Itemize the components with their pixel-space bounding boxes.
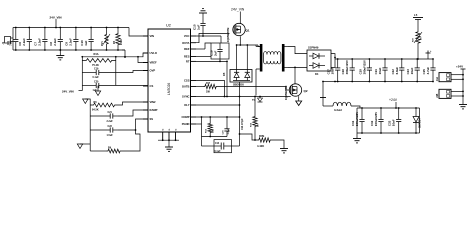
svg-text:2K: 2K — [421, 37, 423, 40]
svg-text:10K: 10K — [213, 129, 215, 133]
svg-text:OUTA: OUTA — [182, 41, 189, 45]
svg-text:4.42K: 4.42K — [257, 144, 264, 148]
svg-text:OVP: OVP — [150, 69, 156, 73]
svg-text:RAMP: RAMP — [150, 108, 158, 112]
svg-text:RT: RT — [186, 60, 190, 64]
svg-text:VIN2: VIN2 — [150, 100, 156, 104]
svg-text:2uF: 2uF — [213, 50, 217, 56]
svg-text:C22: C22 — [108, 125, 113, 128]
svg-text:VCC: VCC — [184, 34, 190, 38]
svg-text:24V_VIN: 24V_VIN — [50, 16, 62, 20]
svg-text:100uF/28V: 100uF/28V — [374, 112, 378, 126]
svg-text:10uF: 10uF — [378, 67, 382, 74]
svg-text:+24V: +24V — [456, 65, 463, 69]
svg-text:1.5uF: 1.5uF — [107, 134, 114, 137]
svg-text:VIN: VIN — [150, 34, 155, 38]
svg-text:1uF: 1uF — [84, 40, 88, 45]
svg-text:C14: C14 — [215, 142, 220, 145]
svg-text:C20: C20 — [94, 80, 99, 83]
svg-text:2.2nF: 2.2nF — [228, 128, 230, 134]
svg-text:2.2uF: 2.2uF — [22, 38, 26, 46]
svg-text:20K: 20K — [206, 92, 211, 94]
svg-text:FQD5N20TM: FQD5N20TM — [285, 86, 288, 100]
svg-text:LM5026: LM5026 — [167, 83, 171, 95]
svg-text:2.2uF: 2.2uF — [69, 38, 73, 46]
svg-text:D5: D5 — [222, 72, 226, 76]
svg-text:300uF/25V: 300uF/25V — [345, 60, 349, 74]
svg-text:249K: 249K — [120, 39, 123, 45]
svg-text:SMAJ24: SMAJ24 — [419, 118, 422, 128]
svg-text:+24V: +24V — [389, 98, 398, 102]
svg-text:Q2: Q2 — [304, 89, 308, 93]
svg-text:COMP: COMP — [181, 115, 189, 119]
svg-text:C19: C19 — [94, 67, 99, 70]
svg-text:DLY: DLY — [184, 103, 189, 107]
svg-text:D4: D4 — [315, 72, 319, 76]
svg-text:U2: U2 — [166, 24, 171, 28]
svg-text:24V_VIN: 24V_VIN — [62, 90, 74, 94]
svg-text:R7B: R7B — [259, 134, 264, 138]
svg-text:10uF: 10uF — [331, 67, 335, 74]
svg-text:SYNC: SYNC — [182, 95, 190, 99]
svg-text:VREF: VREF — [150, 61, 158, 65]
svg-text:CS: CS — [150, 84, 154, 88]
svg-text:R4A: R4A — [94, 53, 99, 56]
svg-text:J4A: J4A — [436, 77, 439, 82]
svg-text:R17: R17 — [206, 83, 211, 85]
svg-text:10uF: 10uF — [392, 119, 396, 126]
svg-text:4.7uF: 4.7uF — [426, 67, 430, 75]
svg-text:84.5K: 84.5K — [92, 109, 99, 112]
svg-text:S1PM49: S1PM49 — [308, 46, 319, 50]
svg-text:1uF: 1uF — [93, 89, 98, 92]
svg-text:3.3uH: 3.3uH — [334, 108, 342, 112]
svg-text:PGND: PGND — [182, 122, 190, 126]
svg-text:G: G — [176, 129, 178, 131]
svg-text:OUTB: OUTB — [182, 85, 190, 89]
svg-text:24V_VIN: 24V_VIN — [231, 8, 245, 12]
svg-text:FQD5N20TM: FQD5N20TM — [227, 28, 230, 42]
svg-text:L5: L5 — [414, 13, 418, 17]
svg-text:0.1uF: 0.1uF — [93, 76, 100, 79]
svg-text:300uF/25V: 300uF/25V — [362, 60, 366, 74]
svg-text:C21: C21 — [108, 111, 113, 114]
svg-text:100uF/28V: 100uF/28V — [355, 112, 359, 126]
svg-text:2.2uF: 2.2uF — [38, 38, 42, 46]
svg-text:2K: 2K — [258, 124, 260, 127]
svg-text:RV1: RV1 — [101, 41, 104, 46]
svg-text:RES: RES — [184, 55, 190, 59]
svg-text:1uF: 1uF — [196, 24, 200, 30]
svg-text:UVLO: UVLO — [150, 51, 157, 55]
svg-text:10uF: 10uF — [410, 67, 414, 74]
svg-text:CSS: CSS — [184, 79, 190, 83]
svg-text:2.2uF: 2.2uF — [107, 120, 114, 123]
svg-text:6.8uF: 6.8uF — [395, 67, 399, 75]
svg-text:SBD0505: SBD0505 — [233, 83, 244, 86]
svg-text:2.2uF: 2.2uF — [53, 38, 57, 46]
svg-text:G: G — [163, 129, 165, 131]
svg-text:G: G — [169, 129, 171, 131]
svg-text:REF: REF — [184, 47, 190, 51]
svg-text:SS: SS — [150, 117, 154, 121]
svg-text:J4B: J4B — [436, 93, 439, 98]
svg-text:C13 470pF: C13 470pF — [241, 118, 244, 130]
svg-text:Q1: Q1 — [246, 29, 250, 33]
svg-text:0.1uF: 0.1uF — [215, 151, 222, 153]
